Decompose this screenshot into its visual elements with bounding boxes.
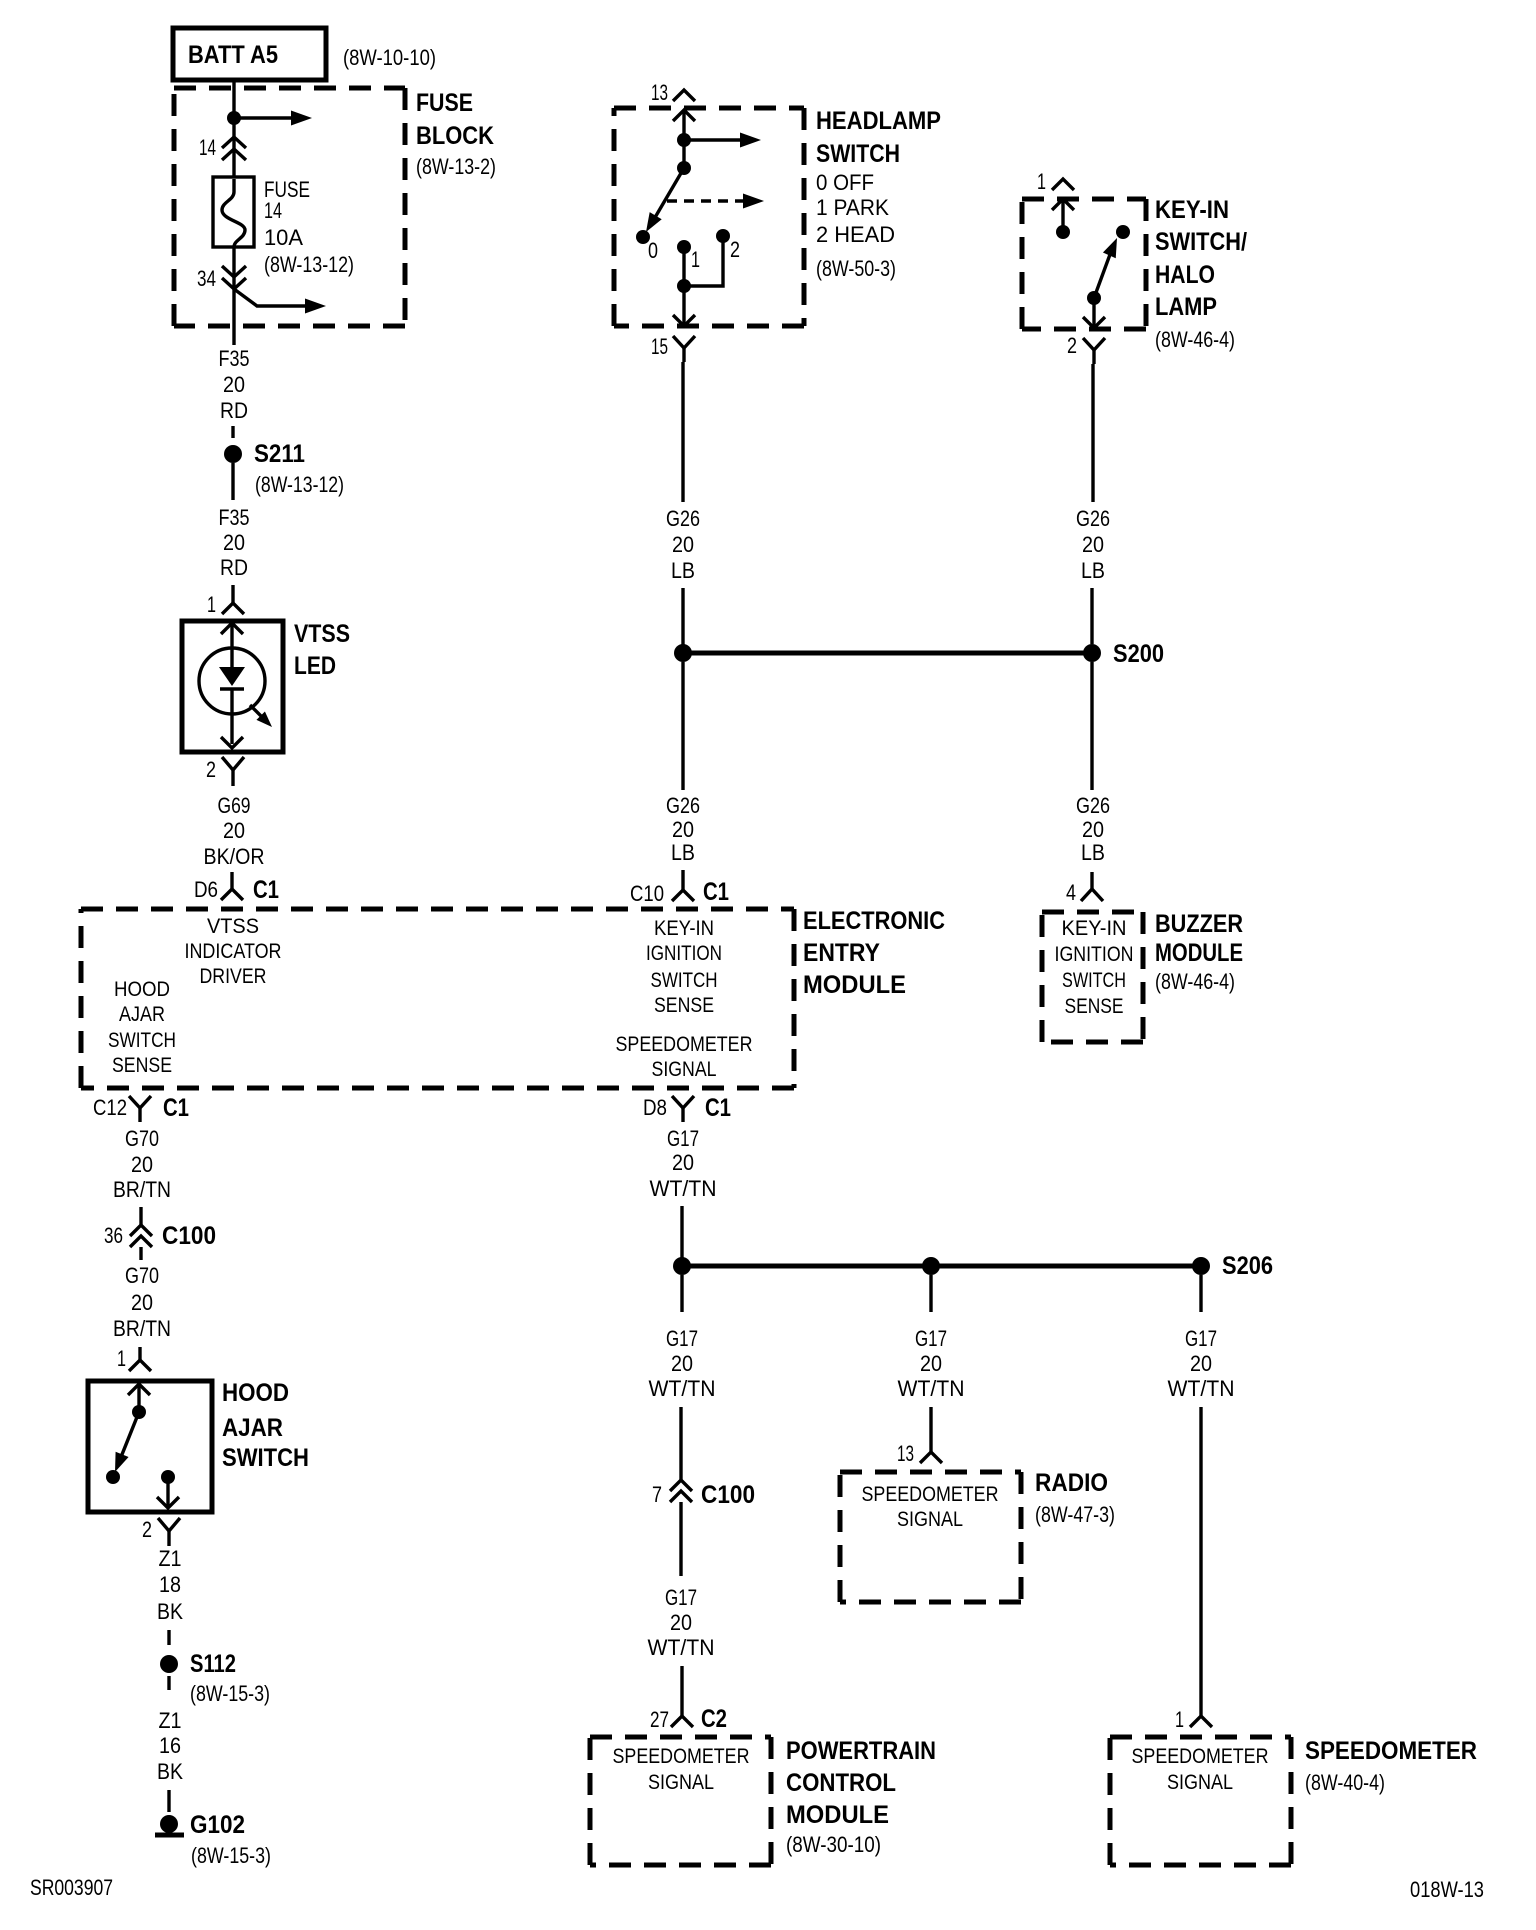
svg-text:2: 2 <box>206 757 216 782</box>
svg-text:20: 20 <box>670 1610 692 1635</box>
module name BUZZER MODULE <box>1155 910 1243 994</box>
svg-text:POWERTRAIN: POWERTRAIN <box>786 1737 936 1765</box>
ground G102 <box>155 1815 184 1835</box>
svg-text:(8W-46-4): (8W-46-4) <box>1155 327 1235 352</box>
connector chevrons pin 34 <box>222 266 246 289</box>
wire above C100 <box>139 1207 142 1225</box>
PCM pin function SPEEDOMETER SIGNAL <box>613 1745 750 1794</box>
svg-text:(8W-30-10): (8W-30-10) <box>786 1832 881 1857</box>
svg-text:SWITCH: SWITCH <box>816 140 900 168</box>
svg-text:WT/TN: WT/TN <box>898 1376 965 1401</box>
svg-text:20: 20 <box>131 1290 153 1315</box>
svg-text:MODULE: MODULE <box>786 1801 889 1829</box>
svg-text:DRIVER: DRIVER <box>200 965 267 988</box>
svg-text:S112: S112 <box>190 1650 236 1678</box>
wire label G26 20 LB <box>1076 793 1110 865</box>
svg-text:4: 4 <box>1066 880 1076 905</box>
svg-text:SPEEDOMETER: SPEEDOMETER <box>1132 1745 1269 1768</box>
wire label G26 20 LB <box>1076 506 1110 583</box>
svg-text:20: 20 <box>1190 1351 1212 1376</box>
svg-text:2 HEAD: 2 HEAD <box>816 222 895 247</box>
svg-text:20: 20 <box>223 372 245 397</box>
wire headlamp switch down <box>681 362 684 502</box>
connector pin 2 out of hood ajar switch <box>158 1518 180 1546</box>
headlamp switch name label <box>816 107 941 281</box>
svg-text:WT/TN: WT/TN <box>1168 1376 1235 1401</box>
buzzer module dashed box <box>1042 912 1143 1042</box>
svg-text:G17: G17 <box>915 1326 947 1351</box>
svg-text:G17: G17 <box>665 1585 697 1610</box>
wire BATT A5 to fuse <box>232 80 235 177</box>
svg-text:LED: LED <box>294 652 336 680</box>
svg-text:(8W-15-3): (8W-15-3) <box>190 1681 270 1706</box>
svg-text:D6: D6 <box>194 877 218 902</box>
connector chevrons 36 C100 <box>130 1225 152 1247</box>
svg-text:LB: LB <box>1081 558 1105 583</box>
entry module pin function HOOD AJAR SWITCH SENSE <box>108 978 176 1077</box>
connector pin 13 into radio <box>920 1407 942 1463</box>
module name RADIO <box>1035 1469 1115 1527</box>
svg-text:1: 1 <box>117 1346 126 1371</box>
connector 27 C2 into powertrain control module <box>671 1666 693 1727</box>
svg-text:(8W-13-2): (8W-13-2) <box>416 154 496 179</box>
VTSS LED name label <box>294 620 350 680</box>
svg-text:RD: RD <box>220 398 248 423</box>
svg-text:SENSE: SENSE <box>112 1054 172 1077</box>
svg-text:1 PARK: 1 PARK <box>816 195 889 220</box>
radio dashed box <box>840 1472 1021 1602</box>
svg-text:(8W-47-3): (8W-47-3) <box>1035 1502 1115 1527</box>
speedometer dashed box <box>1110 1737 1291 1865</box>
svg-text:G70: G70 <box>125 1263 159 1288</box>
wire label G69 20 BK/OR <box>204 793 265 869</box>
connector D6 C1 into entry module <box>221 872 243 900</box>
svg-text:MODULE: MODULE <box>1155 939 1243 967</box>
svg-text:BUZZER: BUZZER <box>1155 910 1243 938</box>
svg-text:SWITCH: SWITCH <box>1062 969 1126 992</box>
wire label G26 20 LB <box>666 506 700 583</box>
svg-text:IGNITION: IGNITION <box>646 942 722 965</box>
svg-text:C1: C1 <box>703 878 729 906</box>
svg-text:(8W-46-4): (8W-46-4) <box>1155 969 1235 994</box>
wire dash above S112 <box>167 1630 170 1645</box>
svg-text:C2: C2 <box>701 1705 727 1733</box>
wire label G70 20 BR/TN <box>113 1126 171 1202</box>
wire dash above S211 <box>231 426 234 438</box>
wire below S211 <box>231 463 234 500</box>
svg-text:HOOD: HOOD <box>114 978 170 1001</box>
svg-text:LAMP: LAMP <box>1155 293 1217 321</box>
wire label F35 20 RD <box>219 346 250 423</box>
svg-text:MODULE: MODULE <box>803 971 906 999</box>
wire label G17 20 WT/TN <box>1168 1326 1235 1401</box>
module name ELECTRONIC ENTRY MODULE <box>803 907 945 999</box>
svg-text:BK/OR: BK/OR <box>204 844 265 869</box>
svg-text:C100: C100 <box>162 1222 216 1250</box>
svg-text:SIGNAL: SIGNAL <box>1167 1771 1233 1794</box>
svg-text:FUSE: FUSE <box>416 89 473 117</box>
svg-text:SR003907: SR003907 <box>30 1875 113 1900</box>
svg-text:ELECTRONIC: ELECTRONIC <box>803 907 945 935</box>
svg-text:10A: 10A <box>264 225 303 250</box>
wire label G17 20 WT/TN <box>648 1585 715 1660</box>
key-in switch name label <box>1155 196 1247 352</box>
wire above C100 <box>679 1407 682 1480</box>
svg-text:BK: BK <box>157 1599 183 1624</box>
svg-text:20: 20 <box>672 1150 694 1175</box>
branch arrow from pin 34 <box>234 289 326 314</box>
svg-text:018W-13: 018W-13 <box>1410 1877 1484 1902</box>
electronic entry module dashed box <box>81 909 794 1088</box>
fuse block title FUSE BLOCK (8W-13-2) <box>416 89 496 179</box>
svg-text:SENSE: SENSE <box>654 994 714 1017</box>
connector C12 C1 out of entry module <box>129 1096 151 1122</box>
wire label G26 20 LB <box>666 793 700 865</box>
svg-text:BR/TN: BR/TN <box>113 1316 171 1341</box>
svg-text:27: 27 <box>650 1707 669 1732</box>
svg-text:(8W-13-12): (8W-13-12) <box>255 472 344 497</box>
svg-text:D8: D8 <box>643 1095 667 1120</box>
svg-text:1: 1 <box>207 592 216 617</box>
svg-text:(8W-40-4): (8W-40-4) <box>1305 1770 1385 1795</box>
svg-text:2: 2 <box>730 237 740 262</box>
connector pin 1 into VTSS LED <box>222 585 244 614</box>
svg-text:20: 20 <box>671 1351 693 1376</box>
connector chevrons 7 C100 <box>670 1480 692 1502</box>
wire label F35 20 RD <box>219 505 250 580</box>
wire into S200 <box>681 588 684 653</box>
svg-text:VTSS: VTSS <box>207 915 259 938</box>
svg-text:(8W-50-3): (8W-50-3) <box>816 256 896 281</box>
svg-text:2: 2 <box>142 1517 152 1542</box>
svg-text:SWITCH: SWITCH <box>651 969 718 992</box>
svg-text:SWITCH/: SWITCH/ <box>1155 228 1247 256</box>
svg-text:Z1: Z1 <box>159 1708 182 1733</box>
power feed BATT A5 <box>173 28 326 80</box>
buzzer pin function KEY-IN IGNITION SWITCH SENSE <box>1055 917 1134 1018</box>
wire below S200 right <box>1090 662 1093 790</box>
svg-text:F35: F35 <box>219 346 250 371</box>
svg-text:C1: C1 <box>705 1094 731 1122</box>
wire label G70 20 BR/TN <box>113 1263 171 1341</box>
svg-text:SWITCH: SWITCH <box>222 1444 309 1472</box>
svg-text:1: 1 <box>1037 169 1046 194</box>
svg-text:HALO: HALO <box>1155 261 1215 289</box>
svg-text:SPEEDOMETER: SPEEDOMETER <box>862 1483 999 1506</box>
svg-text:SPEEDOMETER: SPEEDOMETER <box>616 1033 753 1056</box>
fuse value label FUSE 14 10A (8W-13-12) <box>264 177 354 277</box>
svg-text:G17: G17 <box>666 1326 698 1351</box>
module name POWERTRAIN CONTROL MODULE <box>786 1737 936 1857</box>
svg-text:C100: C100 <box>701 1481 755 1509</box>
entry module pin function SPEEDOMETER SIGNAL <box>616 1033 753 1081</box>
connector pin 1 into speedometer <box>1190 1716 1212 1727</box>
splice S200 junction <box>674 644 1101 662</box>
svg-text:G17: G17 <box>667 1126 699 1151</box>
svg-text:13: 13 <box>651 80 668 105</box>
connector C10 C1 into entry module <box>672 870 694 901</box>
svg-text:SPEEDOMETER: SPEEDOMETER <box>613 1745 750 1768</box>
svg-text:SIGNAL: SIGNAL <box>897 1508 963 1531</box>
svg-text:20: 20 <box>223 818 245 843</box>
svg-text:(8W-13-12): (8W-13-12) <box>264 252 354 277</box>
svg-text:20: 20 <box>672 532 694 557</box>
wire label G17 20 WT/TN <box>898 1326 965 1401</box>
headlamp switch internals <box>636 110 764 326</box>
wire key-in switch down <box>1091 364 1094 502</box>
svg-text:WT/TN: WT/TN <box>650 1176 717 1201</box>
speedometer pin function SPEEDOMETER SIGNAL <box>1132 1745 1269 1794</box>
svg-text:LB: LB <box>671 558 695 583</box>
fuse 14 10A <box>213 177 254 247</box>
connector pin 13 chevron <box>673 90 695 101</box>
svg-text:BATT A5: BATT A5 <box>188 41 278 69</box>
svg-text:HEADLAMP: HEADLAMP <box>816 107 941 135</box>
splice S206 junction <box>673 1257 1210 1275</box>
svg-text:C1: C1 <box>253 876 279 904</box>
svg-text:36: 36 <box>104 1223 123 1248</box>
svg-text:G70: G70 <box>125 1126 159 1151</box>
svg-text:S200: S200 <box>1113 640 1164 668</box>
svg-text:SWITCH: SWITCH <box>108 1029 176 1052</box>
svg-text:2: 2 <box>1067 333 1077 358</box>
wire into S200 right <box>1090 588 1093 644</box>
svg-text:VTSS: VTSS <box>294 620 350 648</box>
wire label G17 20 WT/TN <box>649 1326 716 1401</box>
svg-text:ENTRY: ENTRY <box>803 939 880 967</box>
fuse block dashed box <box>174 88 405 326</box>
svg-text:20: 20 <box>672 817 694 842</box>
wire below S206 right to speedometer <box>1199 1275 1202 1312</box>
svg-text:C1: C1 <box>163 1094 189 1122</box>
wire label Z1 16 BK <box>157 1708 183 1784</box>
wire into S206 <box>680 1206 683 1266</box>
splice S112 <box>160 1655 178 1673</box>
svg-text:15: 15 <box>651 334 668 359</box>
connector pin 15 out of headlamp switch <box>673 336 695 362</box>
svg-text:SIGNAL: SIGNAL <box>652 1058 717 1081</box>
svg-text:AJAR: AJAR <box>222 1414 283 1442</box>
hood ajar switch name label <box>222 1379 309 1472</box>
junction dot in fuse block <box>227 111 241 125</box>
splice S211 <box>224 445 242 463</box>
wire dash below S112 <box>167 1676 170 1690</box>
connector pin 1 into hood ajar switch <box>129 1347 151 1371</box>
svg-text:CONTROL: CONTROL <box>786 1769 896 1797</box>
wire label G17 20 WT/TN <box>650 1126 717 1201</box>
wire below S206 left <box>680 1275 683 1312</box>
svg-text:G69: G69 <box>218 793 251 818</box>
radio pin function SPEEDOMETER SIGNAL <box>862 1483 999 1531</box>
connector pin 2 out of VTSS LED <box>222 757 244 786</box>
svg-text:S206: S206 <box>1222 1252 1273 1280</box>
svg-text:BR/TN: BR/TN <box>113 1177 171 1202</box>
wire below S206 middle to radio <box>929 1275 932 1312</box>
svg-text:AJAR: AJAR <box>119 1003 165 1026</box>
svg-text:0 OFF: 0 OFF <box>816 170 874 195</box>
svg-text:G26: G26 <box>1076 793 1110 818</box>
connector D8 C1 out of entry module <box>672 1096 694 1122</box>
svg-text:KEY-IN: KEY-IN <box>1155 196 1229 224</box>
svg-text:WT/TN: WT/TN <box>649 1376 716 1401</box>
VTSS LED indicator <box>182 621 283 752</box>
svg-text:HOOD: HOOD <box>222 1379 289 1407</box>
svg-text:20: 20 <box>131 1152 153 1177</box>
svg-text:IGNITION: IGNITION <box>1055 943 1134 966</box>
svg-text:G17: G17 <box>1185 1326 1217 1351</box>
svg-text:20: 20 <box>1082 532 1104 557</box>
wire down to speedometer <box>1199 1407 1202 1716</box>
key-in switch dashed box <box>1022 199 1146 329</box>
svg-text:LB: LB <box>1081 840 1105 865</box>
svg-text:F35: F35 <box>219 505 250 530</box>
svg-text:1: 1 <box>1175 1707 1184 1732</box>
wire above ground <box>167 1790 170 1812</box>
module name SPEEDOMETER <box>1305 1737 1477 1795</box>
wire below C100 <box>679 1502 682 1576</box>
svg-text:14: 14 <box>199 135 216 160</box>
connector pin 4 into buzzer module <box>1081 872 1103 901</box>
wire below C100 <box>139 1247 142 1260</box>
svg-text:13: 13 <box>897 1441 914 1466</box>
switch position labels 0 1 2 <box>648 237 740 272</box>
entry module pin function VTSS INDICATOR DRIVER <box>185 915 282 988</box>
svg-text:WT/TN: WT/TN <box>648 1635 715 1660</box>
svg-text:20: 20 <box>920 1351 942 1376</box>
svg-text:18: 18 <box>159 1572 181 1597</box>
svg-text:BLOCK: BLOCK <box>416 122 494 150</box>
svg-text:SENSE: SENSE <box>1065 995 1124 1018</box>
svg-text:KEY-IN: KEY-IN <box>654 917 714 940</box>
svg-text:14: 14 <box>264 198 282 223</box>
svg-text:BK: BK <box>157 1759 183 1784</box>
svg-text:RADIO: RADIO <box>1035 1469 1108 1497</box>
svg-text:SPEEDOMETER: SPEEDOMETER <box>1305 1737 1477 1765</box>
svg-text:INDICATOR: INDICATOR <box>185 940 282 963</box>
branch arrow to other circuits <box>234 111 312 126</box>
connector chevrons pin 14 <box>222 137 246 160</box>
svg-text:S211: S211 <box>254 440 305 468</box>
svg-text:(8W-10-10): (8W-10-10) <box>343 45 436 70</box>
svg-text:20: 20 <box>223 530 245 555</box>
connector pin 1 chevron <box>1052 179 1074 190</box>
powertrain control module dashed box <box>590 1737 771 1865</box>
svg-text:G26: G26 <box>1076 506 1110 531</box>
svg-text:(8W-15-3): (8W-15-3) <box>191 1843 271 1868</box>
svg-text:C10: C10 <box>630 881 664 906</box>
wire below S200 left <box>681 662 684 790</box>
svg-text:1: 1 <box>691 247 700 272</box>
svg-text:KEY-IN: KEY-IN <box>1062 917 1127 940</box>
key-in switch internals <box>1052 199 1130 328</box>
svg-text:34: 34 <box>197 266 216 291</box>
hood ajar switch <box>88 1381 212 1512</box>
svg-text:7: 7 <box>652 1482 662 1507</box>
svg-text:G26: G26 <box>666 793 700 818</box>
svg-text:16: 16 <box>159 1733 181 1758</box>
wire fuse output <box>232 247 235 345</box>
svg-text:G26: G26 <box>666 506 700 531</box>
svg-text:20: 20 <box>1082 817 1104 842</box>
headlamp switch dashed box <box>614 108 804 326</box>
connector pin 2 out of key-in switch <box>1083 338 1105 364</box>
wire label Z1 18 BK <box>157 1546 183 1624</box>
svg-text:SIGNAL: SIGNAL <box>648 1771 714 1794</box>
svg-text:C12: C12 <box>93 1095 127 1120</box>
entry module pin function KEY-IN IGNITION SWITCH SENSE <box>646 917 722 1017</box>
svg-text:0: 0 <box>648 238 658 263</box>
svg-text:LB: LB <box>671 840 695 865</box>
svg-text:RD: RD <box>220 555 248 580</box>
svg-text:Z1: Z1 <box>159 1546 182 1571</box>
svg-text:G102: G102 <box>190 1811 245 1839</box>
